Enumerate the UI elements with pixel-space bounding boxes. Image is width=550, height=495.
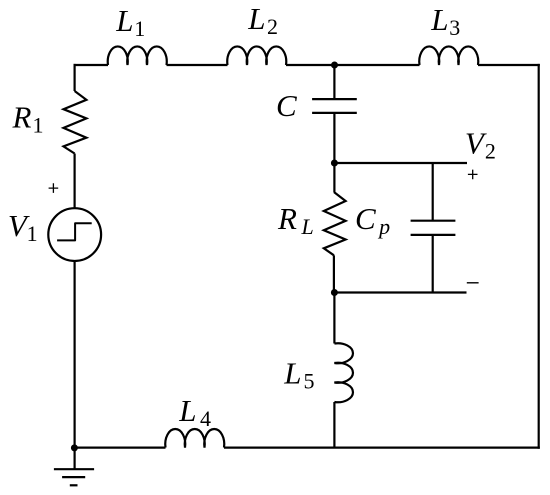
- resistor RL: [324, 192, 346, 255]
- voltage source V1 circle: [48, 208, 101, 261]
- inductor L3: [419, 46, 478, 65]
- wire bottom right segment: [224, 447, 540, 449]
- wire from RL down to bottom node: [333, 255, 335, 292]
- node dot bottom of RL: [331, 289, 338, 296]
- wire from Cp top: [432, 163, 434, 221]
- svg-text:R1: R1: [12, 100, 44, 138]
- wire from node down to RL: [333, 163, 335, 192]
- wire V2 bottom horizontal: [334, 291, 466, 293]
- svg-text:RL: RL: [277, 201, 314, 239]
- inductor L5: [334, 343, 353, 402]
- svg-text:Cp: Cp: [355, 201, 390, 239]
- wire top segment between L1 and L2: [167, 64, 228, 66]
- resistor R1: [64, 91, 87, 154]
- wire from capacitor C down to node: [333, 113, 335, 163]
- svg-text:L5: L5: [283, 356, 314, 394]
- wire left middle vertical: [73, 154, 75, 209]
- wire from top node down to capacitor C: [333, 65, 335, 99]
- wire bottom left segment: [74, 447, 166, 449]
- step waveform inside V1: [57, 223, 92, 240]
- wire right side vertical: [538, 64, 540, 449]
- ground bar 1: [54, 468, 94, 470]
- svg-text:C: C: [276, 88, 297, 123]
- wire left top vertical: [73, 64, 75, 91]
- inductor L1: [108, 46, 167, 65]
- wire from Cp bottom: [432, 235, 434, 293]
- inductor L4: [165, 429, 224, 448]
- plus sign of V2: [468, 170, 478, 180]
- svg-text:V1: V1: [8, 208, 38, 246]
- wire top segment left: [74, 64, 109, 66]
- svg-text:L4: L4: [178, 393, 211, 431]
- svg-text:L2: L2: [247, 1, 278, 39]
- inductor L2: [227, 46, 286, 65]
- svg-text:L1: L1: [115, 3, 145, 41]
- wire from bottom node down to L5: [333, 293, 335, 344]
- svg-text:V2: V2: [465, 126, 496, 164]
- node dot bottom left: [71, 444, 78, 451]
- capacitor C: [312, 99, 357, 113]
- capacitor Cp: [411, 221, 456, 235]
- wire top segment right: [478, 64, 540, 66]
- wire left bottom vertical: [73, 261, 75, 449]
- plus sign of V1: [49, 183, 59, 193]
- node dot middle (top of RL): [331, 160, 338, 167]
- ground bar 2: [62, 476, 85, 478]
- svg-text:L3: L3: [430, 2, 460, 40]
- ground bar 3: [70, 484, 78, 486]
- node dot top center: [331, 62, 338, 69]
- wire from L5 down to bottom wire: [333, 402, 335, 448]
- ground stub: [73, 448, 75, 470]
- wire V2 top horizontal: [334, 162, 467, 164]
- minus sign of V2: [467, 282, 479, 284]
- wire top segment between L2 and L3: [286, 64, 420, 66]
